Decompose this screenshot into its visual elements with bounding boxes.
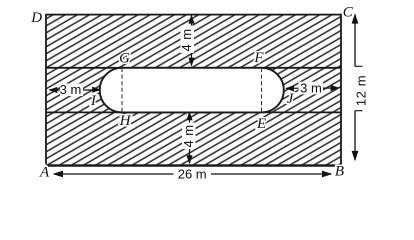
svg-text:E: E (256, 116, 266, 132)
svg-text:B: B (335, 164, 344, 180)
line H-E (full width) (46, 111, 341, 113)
svg-text:A: A (39, 165, 50, 181)
svg-text:12 m: 12 m (353, 75, 368, 106)
svg-text:26 m: 26 m (178, 167, 207, 182)
svg-text:F: F (253, 50, 264, 66)
svg-text:G: G (119, 50, 130, 66)
dimension 12 m (right) (352, 13, 369, 161)
svg-text:4 m: 4 m (181, 125, 196, 148)
svg-text:D: D (30, 10, 42, 26)
svg-text:3 m: 3 m (300, 81, 322, 96)
stadium (white track area) (100, 68, 284, 113)
rectangle ABCD hatched field (46, 15, 341, 166)
dashed line F-E (261, 68, 263, 112)
dimension 3 m (right) (285, 81, 340, 96)
svg-text:4 m: 4 m (179, 29, 194, 52)
line G-F (full width) (46, 67, 341, 69)
svg-text:3 m: 3 m (60, 82, 82, 97)
dimension 4 m (top) (179, 15, 195, 67)
dimension 4 m (bottom) (181, 111, 196, 164)
dimension 26 m (bottom) (53, 167, 333, 182)
svg-text:H: H (119, 113, 132, 129)
dimension 3 m (left) (48, 82, 101, 97)
dashed line G-H (121, 68, 123, 112)
bottom edge A-B thickening (46, 165, 341, 167)
svg-text:I: I (90, 93, 97, 109)
svg-text:C: C (343, 5, 354, 21)
